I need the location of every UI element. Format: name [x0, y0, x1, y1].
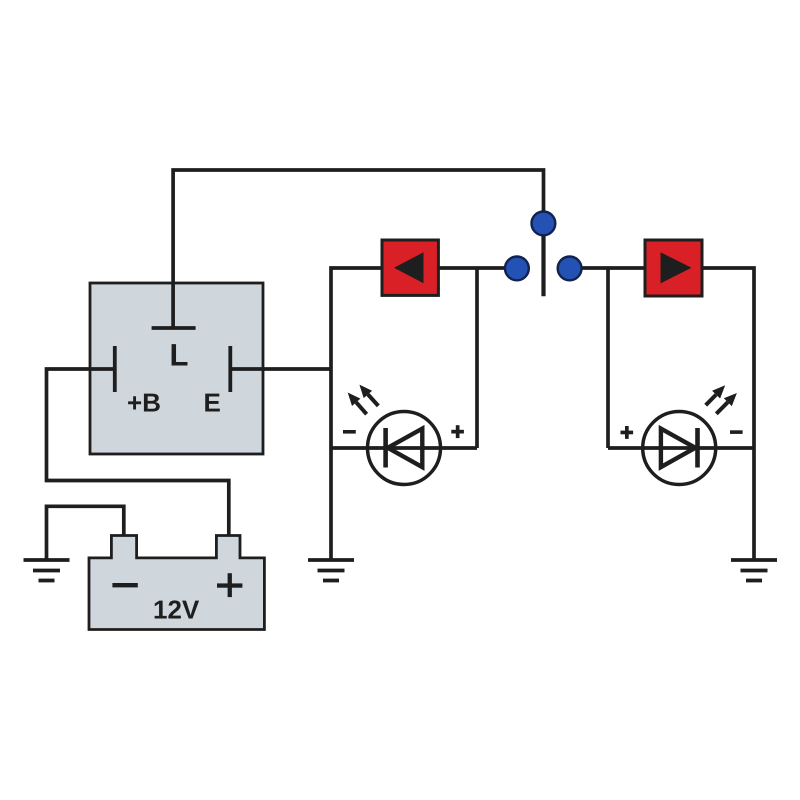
relay label E: [205, 394, 220, 412]
ground left: [24, 560, 70, 581]
wire left indicator to left vertical and ground: [331, 268, 382, 560]
LED D2 minus label: [730, 430, 743, 434]
ground right: [731, 560, 777, 581]
wire switch right contact to right indicator: [568, 266, 645, 270]
battery BT1 body: [89, 536, 264, 630]
relay label +B: [128, 394, 160, 412]
relay label L: [172, 344, 188, 365]
switch S1 top contact: [532, 212, 556, 236]
wire right indicator to right vertical and ground: [702, 268, 754, 560]
wire junction down to right LED plus: [606, 268, 610, 448]
switch S1 left contact: [505, 257, 529, 281]
LED D2 triangle: [661, 429, 696, 468]
battery minus sign: [112, 583, 137, 587]
wire L to switch top: [173, 170, 543, 328]
relay terminal L bar: [152, 326, 196, 330]
battery label 12V: [155, 600, 199, 618]
switch S1 right contact: [558, 257, 582, 281]
wire junction down to left LED plus: [475, 268, 479, 448]
LED D1 emission arrows: [348, 385, 379, 415]
battery plus sign: [217, 573, 242, 597]
wire through left LED: [331, 446, 477, 450]
wire battery minus to ground: [47, 506, 124, 560]
ground middle: [308, 560, 354, 581]
indicator lamp right triangle: [661, 252, 692, 283]
LED D2 cathode bar: [695, 428, 700, 468]
relay terminal E bracket: [228, 346, 232, 392]
LED D1 triangle: [388, 429, 423, 468]
LED D2 emission arrows: [706, 385, 737, 414]
wire through right LED: [608, 446, 754, 450]
LED D1 minus label: [343, 430, 356, 434]
wire E to node A: [232, 367, 331, 371]
LED D1 circle: [368, 412, 441, 485]
LED D2 circle: [643, 412, 716, 485]
LED D1 cathode bar: [383, 428, 388, 468]
wire +B to battery plus: [47, 369, 229, 536]
indicator lamp left (red square): [382, 240, 438, 295]
indicator lamp left triangle: [394, 252, 424, 283]
flasher relay U1 body: [90, 283, 263, 454]
relay terminal +B bracket: [113, 346, 117, 392]
switch lever: [541, 212, 545, 296]
indicator lamp right (red square): [645, 240, 702, 296]
wire left indicator to switch left contact: [438, 266, 517, 270]
LED D2 plus label: [621, 426, 634, 439]
LED D1 plus label: [451, 425, 464, 438]
